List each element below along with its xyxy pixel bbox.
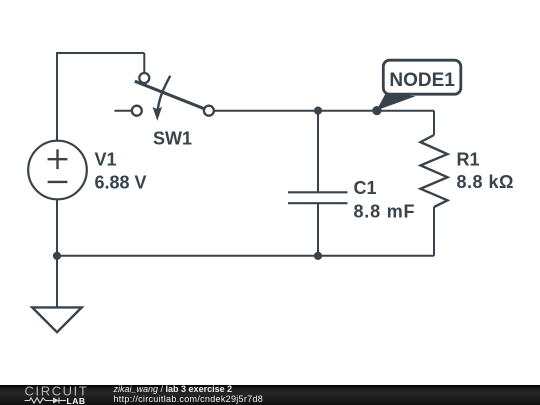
svg-text:6.88 V: 6.88 V: [95, 172, 147, 192]
wire bottom rail: [57, 255, 434, 257]
svg-text:8.8 mF: 8.8 mF: [354, 201, 416, 221]
wire C1 top: [317, 111, 319, 193]
footer bar: [0, 385, 540, 405]
wire V1 bottom to ground: [56, 200, 58, 308]
switch terminal top: [139, 73, 149, 83]
node NODE1 dot: [372, 106, 381, 115]
switch terminal left: [132, 106, 142, 116]
switch arrow: [158, 76, 170, 110]
resistor R1: [421, 135, 448, 207]
svg-text:C1: C1: [354, 178, 377, 198]
ground: [32, 307, 81, 332]
wire switch drop: [143, 53, 145, 73]
switch terminal right: [204, 106, 214, 116]
switch blade: [135, 81, 205, 109]
svg-text:SW1: SW1: [153, 128, 192, 148]
switch SW1: [132, 73, 214, 121]
capacitor C1: [288, 192, 348, 203]
junction dot left rail: [53, 252, 61, 260]
wire R1 top: [433, 111, 435, 135]
wire switch left stub: [115, 110, 133, 112]
svg-text:8.8 kΩ: 8.8 kΩ: [457, 172, 514, 192]
wire top-right horizontal: [214, 110, 434, 112]
svg-text:V1: V1: [95, 149, 117, 169]
CircuitLab logo: [10, 384, 110, 405]
voltage source V1: [28, 141, 87, 200]
svg-text:LAB: LAB: [67, 396, 86, 405]
wire C1 bottom: [317, 203, 319, 256]
junction dot C1 bottom: [314, 252, 322, 260]
svg-text:NODE1: NODE1: [389, 70, 455, 91]
wire top horizontal: [56, 52, 144, 54]
credit text: [114, 384, 264, 404]
wire top-left vertical: [56, 53, 58, 141]
wire R1 bottom: [433, 207, 435, 256]
junction dot C1 top: [314, 107, 322, 115]
svg-text:R1: R1: [457, 150, 480, 170]
node NODE1 callout: [372, 60, 461, 115]
